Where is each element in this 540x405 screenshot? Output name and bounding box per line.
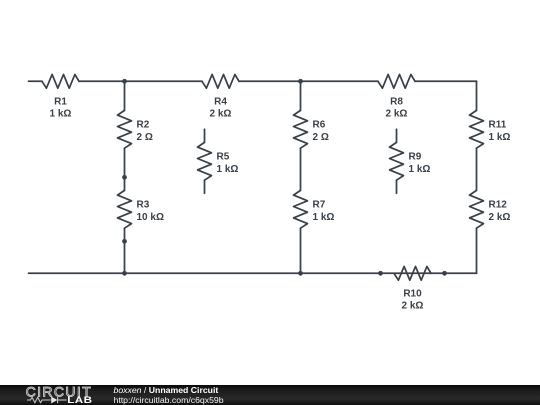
svg-text:R3: R3: [137, 200, 150, 211]
svg-text:R7: R7: [313, 200, 326, 211]
svg-text:R4: R4: [214, 97, 227, 108]
svg-text:R1: R1: [54, 97, 67, 108]
svg-text:2 kΩ: 2 kΩ: [210, 109, 232, 120]
svg-text:R10: R10: [403, 289, 422, 300]
svg-text:2 kΩ: 2 kΩ: [386, 109, 408, 120]
svg-text:R8: R8: [390, 97, 403, 108]
svg-text:1 kΩ: 1 kΩ: [489, 132, 511, 143]
svg-text:2 Ω: 2 Ω: [137, 132, 153, 143]
svg-text:10 kΩ: 10 kΩ: [137, 212, 164, 223]
svg-text:R11: R11: [489, 120, 507, 131]
svg-text:1 kΩ: 1 kΩ: [50, 109, 72, 120]
svg-text:1 kΩ: 1 kΩ: [313, 212, 335, 223]
svg-text:R2: R2: [137, 120, 150, 131]
svg-text:1 kΩ: 1 kΩ: [409, 164, 431, 175]
svg-text:LAB: LAB: [67, 396, 92, 405]
svg-text:2 kΩ: 2 kΩ: [489, 212, 511, 223]
svg-text:R6: R6: [313, 120, 326, 131]
svg-text:1 kΩ: 1 kΩ: [217, 164, 239, 175]
svg-text:2 kΩ: 2 kΩ: [402, 301, 424, 312]
svg-text:R9: R9: [409, 152, 422, 163]
svg-text:R12: R12: [489, 200, 508, 211]
svg-text:R5: R5: [217, 152, 230, 163]
svg-text:2 Ω: 2 Ω: [313, 132, 329, 143]
